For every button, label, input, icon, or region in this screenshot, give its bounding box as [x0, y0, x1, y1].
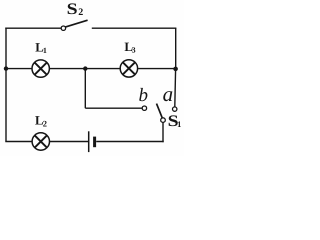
svg-text:b: b — [139, 85, 149, 106]
battery short plate — [93, 137, 96, 148]
wire left vertical — [5, 28, 7, 142]
lamp L1 — [32, 60, 49, 77]
switch S2 blade — [66, 20, 88, 27]
svg-text:1: 1 — [43, 46, 47, 55]
wire S1 stub down — [162, 122, 164, 142]
wire branch vertical to b — [84, 69, 86, 109]
switch S1 blade — [157, 104, 163, 118]
svg-text:2: 2 — [78, 7, 83, 18]
svg-text:1: 1 — [177, 119, 181, 129]
svg-text:S: S — [67, 1, 78, 18]
wire bottom right segment — [96, 141, 164, 143]
svg-text:3: 3 — [132, 46, 136, 55]
svg-text:a: a — [163, 82, 174, 106]
battery long plate — [88, 131, 90, 152]
wire middle horizontal segment A — [6, 68, 32, 70]
wire top horizontal right segment — [92, 27, 177, 29]
wire bottom middle segment — [50, 141, 88, 143]
wire right vertical — [175, 28, 177, 69]
switch S2 pivot circle — [61, 26, 65, 30]
wire middle horizontal segment C — [138, 68, 176, 70]
switch S1 pivot circle — [161, 118, 166, 123]
wire right vertical lower (to a) — [174, 69, 177, 107]
wire middle horizontal segment B — [50, 68, 120, 70]
wire branch horizontal to b — [85, 107, 142, 109]
junction node right — [173, 67, 178, 72]
wire top horizontal left segment — [5, 27, 61, 29]
junction node center — [83, 66, 87, 70]
terminal a circle — [173, 107, 177, 111]
lamp L3 — [120, 60, 137, 77]
wire bottom horizontal left segment — [5, 141, 31, 143]
terminal b circle — [142, 106, 146, 110]
lamp L2 — [32, 133, 49, 150]
junction node left — [4, 66, 8, 70]
svg-text:2: 2 — [43, 119, 47, 129]
